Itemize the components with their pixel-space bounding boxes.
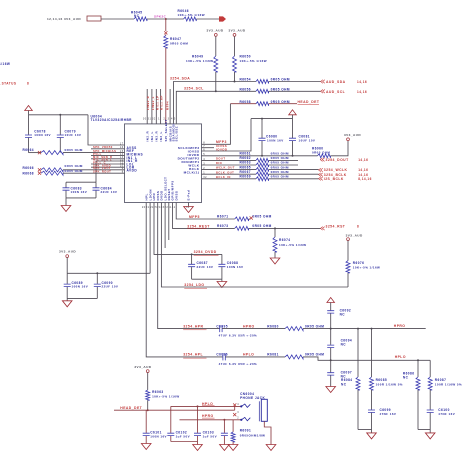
svg-text:5: 5: [174, 118, 176, 121]
svg-text:HPRO: HPRO: [243, 324, 255, 328]
svg-text:100R 1/16W 5%: 100R 1/16W 5%: [376, 382, 403, 386]
svg-text:0R05 OHM: 0R05 OHM: [271, 152, 289, 156]
capacitor C6083 100N 16V: [65, 182, 67, 187]
wire R6050 to 3254_SDA line: [234, 72, 236, 82]
wire LDOIN caps bottom rail: [67, 297, 97, 299]
wire R6065 to net label: [269, 169, 319, 171]
capacitor C6094 NC between HPRO and HPLO: [330, 329, 332, 345]
svg-text:0R05 OHM: 0R05 OHM: [312, 150, 330, 154]
svg-text:47NF 16V: 47NF 16V: [380, 412, 397, 416]
resistor R6087 100R: [429, 360, 431, 377]
net label 3254_RST: [321, 227, 325, 231]
wire 3254_HPR row: [158, 203, 220, 329]
svg-text:NC: NC: [341, 382, 347, 386]
wire 3254_SCL from codec pin up and right: [176, 91, 256, 124]
svg-text:R6056: R6056: [240, 87, 252, 91]
net label AUD_SDA: [321, 80, 325, 84]
svg-text:10K+-5% 1/16W: 10K+-5% 1/16W: [178, 13, 205, 17]
svg-text:3V3_AUD: 3V3_AUD: [134, 365, 151, 369]
svg-text:31: 31: [148, 118, 152, 121]
svg-text:R6049: R6049: [192, 55, 204, 59]
wire codec serial row BCLK_OUT: [202, 173, 257, 175]
wire LDOIN rail: [66, 258, 68, 274]
svg-text:14,16: 14,16: [358, 158, 368, 162]
svg-text:WCLK_OUT: WCLK_OUT: [216, 166, 235, 170]
svg-text:3V3_AUD: 3V3_AUD: [346, 234, 363, 238]
resistor R6074 10K pull-down: [274, 227, 276, 229]
svg-text:R6054: R6054: [240, 78, 252, 82]
svg-text:10UF 10V: 10UF 10V: [299, 138, 316, 142]
capacitor C6099 47NF 16V: [371, 390, 373, 410]
svg-text:3V3_AUD: 3V3_AUD: [59, 249, 76, 253]
svg-text:3254_SCL: 3254_SCL: [184, 87, 204, 91]
svg-text:22UF 10V: 22UF 10V: [101, 190, 118, 194]
wire R6058 to HEAD_DET label: [269, 103, 297, 105]
capacitor C6104 on HPRO: [223, 419, 225, 421]
svg-text:R6076: R6076: [353, 261, 365, 265]
svg-text:AUD_SCL: AUD_SCL: [326, 90, 345, 94]
wire SPK2C node to R6046: [166, 18, 184, 20]
capacitor C6101 100N 16V: [145, 410, 147, 433]
svg-text:R6061: R6061: [240, 152, 252, 156]
capacitor C6080 100N 16V: [261, 118, 263, 120]
wire R6062 to net label: [269, 159, 298, 161]
net label IOVSS stub: [202, 147, 215, 149]
net label 3254_DOUT: [320, 158, 324, 162]
svg-text:3254_LDO: 3254_LDO: [184, 283, 204, 287]
svg-text:12,14,16: 12,14,16: [47, 17, 63, 21]
svg-text:R6073: R6073: [217, 224, 229, 228]
wire HEAD_DET row to jack: [114, 409, 235, 411]
svg-text:0R05 OHM: 0R05 OHM: [271, 170, 289, 174]
wire codec top pin stubs: [146, 89, 148, 124]
svg-text:22UF 10V: 22UF 10V: [102, 285, 119, 289]
svg-text:0R05 OHM: 0R05 OHM: [271, 78, 290, 82]
svg-text:100R 1/16W 5%: 100R 1/16W 5%: [435, 382, 462, 386]
wire codec serial row DIN: [202, 164, 257, 166]
capacitor C6088 100N 16V: [221, 254, 223, 264]
resistor R6076 10K pull-up: [347, 241, 349, 261]
svg-text:R6066: R6066: [23, 166, 35, 170]
svg-text:32: 32: [152, 118, 156, 121]
svg-text:3254_DOUT: 3254_DOUT: [326, 158, 350, 162]
no-stuff X mark on R6071: [249, 218, 251, 220]
svg-text:DIN: DIN: [216, 161, 222, 165]
wire SPK2C node down to R6047: [165, 19, 167, 31]
svg-text:HPLO: HPLO: [202, 402, 213, 406]
svg-text:3254_RST: 3254_RST: [326, 225, 346, 229]
svg-text:4: 4: [171, 118, 173, 121]
off-page connector arrow right: [219, 16, 226, 21]
svg-text:MFP5: MFP5: [189, 215, 200, 219]
svg-text:R6062: R6062: [240, 156, 252, 160]
wire LDOIN pin drop: [149, 203, 151, 274]
svg-text:R6074: R6074: [279, 238, 291, 242]
svg-text:R6047: R6047: [170, 37, 182, 41]
wire R6046 to off-page arrow: [196, 18, 219, 20]
wire MFP3 riser down to codec pin: [202, 104, 231, 145]
svg-text:BCLK_OUT: BCLK_OUT: [216, 170, 234, 174]
svg-text:SCL/SSZ: SCL/SSZ: [175, 126, 179, 142]
svg-text:SPK_ROUT: SPK_ROUT: [93, 170, 111, 174]
svg-text:HPRO: HPRO: [394, 324, 406, 328]
svg-text:R6058: R6058: [240, 100, 252, 104]
svg-text:100N 16V: 100N 16V: [71, 190, 88, 194]
svg-text:8: 8: [27, 81, 29, 85]
svg-text:0R05 OHM: 0R05 OHM: [271, 87, 290, 91]
wire R6067 to net label: [269, 173, 319, 175]
svg-text:47UF 6.3V X5R +-20%: 47UF 6.3V X5R +-20%: [219, 362, 258, 366]
wire HPLO to HEAD_DET link at jack: [234, 406, 236, 410]
svg-text:10K+-5% 1/16W: 10K+-5% 1/16W: [353, 266, 380, 270]
svg-text:LINE2_L: LINE2_L: [151, 96, 155, 110]
svg-text:DOUT: DOUT: [216, 157, 225, 161]
resistor R6085 100R: [371, 328, 373, 330]
svg-text:100N 16V: 100N 16V: [150, 434, 167, 438]
ground for LDOIN caps: [66, 298, 68, 300]
svg-text:IN2_R: IN2_R: [145, 130, 149, 141]
svg-text:E-Pad: E-Pad: [187, 190, 191, 201]
svg-text:0R05 OHM: 0R05 OHM: [170, 41, 188, 45]
wire R6073 to 3254_RST label: [249, 227, 321, 229]
svg-text:IN2_L: IN2_L: [150, 131, 154, 141]
ground codec E-Pad: [188, 203, 190, 207]
wire caps bottom rail: [66, 197, 96, 199]
wire MFP5 row: [176, 203, 235, 220]
svg-text:MCLK(1): MCLK(1): [184, 170, 200, 174]
svg-text:0R05 OHM: 0R05 OHM: [252, 214, 271, 218]
svg-text:R6091: R6091: [240, 429, 252, 433]
wire codec spare bottom stubs: [164, 203, 166, 249]
svg-text:4: 4: [237, 403, 239, 406]
wire 3V3_AUD feed to R6045: [101, 18, 134, 20]
ground for output caps: [65, 198, 67, 206]
svg-text:10UF 10V: 10UF 10V: [65, 133, 82, 137]
op-amp/codec U6004 TLV320AIC3254IRHBR body: [125, 124, 202, 203]
wire R6049 to 3254_SCL line: [215, 72, 217, 91]
net label 3254_BCLK: [319, 173, 323, 177]
svg-text:SPK_VDD50: SPK_VDD50: [93, 145, 113, 149]
wire LOL row to output caps: [96, 161, 125, 182]
svg-text:0R05 OHM: 0R05 OHM: [65, 148, 83, 152]
svg-text:47UF 6.3V X5R +-20%: 47UF 6.3V X5R +-20%: [219, 334, 258, 338]
capacitor C6103 1uF 50V: [197, 405, 199, 407]
svg-text:HPLO: HPLO: [395, 355, 406, 359]
svg-text:TLV320AIC3254IRHBR: TLV320AIC3254IRHBR: [91, 118, 133, 122]
svg-text:R6080: R6080: [267, 324, 279, 328]
svg-text:SPK2C: SPK2C: [154, 14, 167, 18]
svg-text:3254_HPL: 3254_HPL: [183, 353, 203, 357]
wire 3254_LDO row: [161, 203, 348, 288]
svg-text:0R05 OHM: 0R05 OHM: [271, 100, 290, 104]
capacitor C6087 22UF 10V: [191, 253, 193, 255]
svg-text:10K+-5% 1/16W: 10K+-5% 1/16W: [186, 59, 213, 63]
wire 3254_HPL row: [146, 203, 223, 357]
power arrow 3V3_AUD analog supply: [25, 106, 33, 111]
svg-text:T_STATUS: T_STATUS: [0, 81, 16, 85]
power flag 3V3_AUD for C6092: [327, 298, 335, 303]
svg-text:HPLO: HPLO: [243, 353, 254, 357]
wire C6095 to R6080: [222, 328, 285, 330]
wire R6066 to codec pin: [63, 169, 125, 171]
svg-text:0R05OHM1/8W: 0R05OHM1/8W: [240, 434, 266, 438]
svg-text:I2S_BCLK: I2S_BCLK: [324, 177, 344, 181]
svg-text:DVSS: DVSS: [174, 191, 178, 201]
wire R6069 to net label: [269, 178, 319, 180]
capacitor C6092 NC: [330, 303, 332, 311]
svg-text:10K+-5% 1/16W: 10K+-5% 1/16W: [240, 59, 267, 63]
wire C6102/C6103 ground rail: [171, 441, 198, 443]
svg-text:R6071: R6071: [217, 214, 229, 218]
wire R6068 to codec pin: [63, 172, 125, 174]
svg-text:100N 16V: 100N 16V: [267, 138, 284, 142]
svg-text:3: 3: [237, 411, 239, 414]
svg-text:3254_REST: 3254_REST: [187, 224, 210, 228]
svg-text:R6046: R6046: [178, 9, 190, 13]
net label I2S_BCLK: [319, 177, 323, 181]
svg-text:3254_DVDD: 3254_DVDD: [194, 250, 217, 254]
svg-text:3V3_AUD: 3V3_AUD: [64, 17, 81, 21]
wire rail down to AVSS/17 pin row: [88, 115, 125, 145]
svg-text:0R05 OHM: 0R05 OHM: [271, 161, 289, 165]
svg-text:HPRO: HPRO: [202, 414, 214, 418]
wire io supply rail: [251, 118, 293, 120]
capacitor C6090 22UF 10V: [96, 272, 98, 274]
ground for C6100: [429, 430, 431, 433]
wire HPLO row to right with jog: [303, 357, 430, 360]
wire R6084/C6099 bottom rail: [358, 429, 372, 431]
svg-text:14,16: 14,16: [357, 80, 367, 84]
wire R6045 to SPK2C node: [147, 18, 166, 20]
svg-text:3V3_AUD: 3V3_AUD: [344, 133, 361, 137]
wire HPLO jack row: [171, 405, 241, 407]
svg-text:NC: NC: [341, 342, 347, 346]
wire C6096 to R6081: [225, 356, 285, 358]
resistor R6091 0R05OHM1/8W: [232, 420, 234, 432]
svg-text:2: 2: [237, 417, 239, 420]
wire HPRO jack row: [180, 419, 241, 421]
no-stuff X mark on R6047: [164, 31, 167, 34]
wire 3V3_AUD flag to R6049: [215, 36, 217, 56]
svg-text:8,14,16: 8,14,16: [358, 177, 372, 181]
svg-text:SPK_LOUT: SPK_LOUT: [93, 166, 111, 170]
svg-text:3V3_AUD: 3V3_AUD: [207, 29, 224, 33]
svg-text:NC: NC: [403, 376, 409, 380]
svg-text:HEAD_DET: HEAD_DET: [298, 100, 320, 104]
svg-text:BCLK_IN: BCLK_IN: [216, 175, 231, 179]
wire R6063 to net label: [269, 164, 298, 166]
capacitor C6084 22UF 10V: [95, 182, 97, 187]
wire R6056 to AUD_SCL label: [269, 90, 321, 92]
net label 3254_WCLK: [319, 168, 323, 172]
svg-text:8: 8: [357, 225, 359, 229]
svg-text:14,16: 14,16: [357, 90, 367, 94]
svg-text:PVLL: PVLL: [93, 152, 102, 156]
svg-text:1: 1: [158, 118, 160, 121]
ground for jack sleeve: [266, 445, 276, 451]
capacitor C6078 100N 16V: [28, 115, 30, 135]
wire jack sleeve to ground: [264, 421, 271, 444]
capacitor C6097 NC below HPLO: [330, 360, 332, 372]
svg-text:R6050: R6050: [240, 55, 252, 59]
svg-text:100N 16V: 100N 16V: [34, 133, 51, 137]
wire 3254_REST row: [173, 203, 235, 229]
capacitor C6081 10UF 10V: [292, 119, 294, 138]
svg-text:IOVDD: IOVDD: [216, 147, 227, 151]
svg-text:100N 16V: 100N 16V: [72, 285, 89, 289]
wire codec serial row BCLK_IN: [202, 178, 257, 180]
svg-text:100N 16V: 100N 16V: [227, 265, 244, 269]
ground for DVDD caps: [221, 279, 223, 281]
net label AUD_SCL: [321, 90, 325, 94]
resistor R6086 NC: [417, 359, 419, 361]
svg-text:10K+-5% 1/16W: 10K+-5% 1/16W: [279, 243, 306, 247]
svg-text:R6067: R6067: [240, 170, 252, 174]
svg-text:IN3_L: IN3_L: [159, 131, 163, 141]
wire R6086/C6100 bottom rail: [418, 429, 430, 431]
svg-text:MFP4: MFP4: [165, 101, 169, 110]
svg-text:MIC1_RP: MIC1_RP: [160, 95, 164, 110]
svg-text:MIC1_LP: MIC1_LP: [155, 96, 159, 111]
wire 3254_SDA from codec pin up and right: [174, 82, 257, 124]
svg-text:3254_SDA: 3254_SDA: [170, 77, 190, 81]
power arrow 3V3_AUD io supply: [289, 110, 297, 115]
wire HPRO row to right: [303, 328, 426, 330]
svg-text:C6096: C6096: [216, 353, 228, 357]
svg-text:NC: NC: [340, 313, 346, 317]
svg-text:3254_WCLK: 3254_WCLK: [324, 168, 348, 172]
svg-text:0R05 OHM: 0R05 OHM: [252, 224, 271, 228]
wire output cap rail: [66, 181, 96, 183]
capacitor C6089 100N 16V: [66, 273, 68, 284]
svg-text:R6064: R6064: [23, 148, 35, 152]
wire R6054 to AUD_SDA label: [269, 81, 321, 83]
wire 3254_DVDD row: [154, 203, 222, 255]
ground for R6074: [270, 258, 280, 264]
capacitor C6102 1uF 50V: [170, 406, 172, 433]
ferrite/resistor box on 3V3_AUD feed: [87, 16, 101, 21]
ground for C6097: [326, 387, 336, 393]
svg-text:AVDD: AVDD: [127, 169, 138, 173]
wire IOVDD to supply rail: [202, 119, 252, 151]
svg-text:R6063: R6063: [240, 161, 252, 165]
resistor R6084 NC: [357, 328, 359, 330]
svg-text:R6069: R6069: [240, 175, 252, 179]
svg-text:0R05 OHM: 0R05 OHM: [271, 175, 289, 179]
wire codec serial row WCLK_OUT: [202, 169, 257, 171]
ground for R6091: [228, 445, 238, 451]
svg-text:HEAD_DET: HEAD_DET: [120, 406, 142, 410]
wire codec left pin stubs: [91, 148, 125, 150]
wire HEAD_DET row from MFP3 riser: [230, 103, 256, 105]
wire DVDD caps bottom rail: [192, 278, 222, 280]
svg-text:R6081: R6081: [267, 353, 279, 357]
capacitor C6079 10UF 10V: [59, 114, 61, 116]
svg-text:R6065: R6065: [240, 165, 252, 169]
svg-text:0R05 OHM: 0R05 OHM: [271, 156, 289, 160]
resistor R6063 10K pull-up: [147, 373, 149, 390]
wire R6060 to 3V3_AUD flag: [331, 141, 349, 156]
wire R6047 down to codec top pin: [165, 48, 167, 124]
ground for C6102/C6103: [197, 442, 199, 445]
svg-text:1/16W: 1/16W: [0, 62, 10, 66]
svg-text:10K+-5% 1/16W: 10K+-5% 1/16W: [152, 394, 179, 398]
wire cap rail to R6064 row: [29, 152, 42, 154]
ground for C6099: [371, 430, 373, 433]
svg-text:0R05 OHM: 0R05 OHM: [305, 324, 324, 328]
svg-text:R6068: R6068: [23, 172, 35, 176]
svg-text:1uF 50V: 1uF 50V: [203, 434, 217, 438]
svg-text:3V3_AUD: 3V3_AUD: [229, 29, 246, 33]
ground for C6101: [141, 444, 151, 450]
svg-text:14,16: 14,16: [358, 168, 368, 172]
svg-text:0R05 OHM: 0R05 OHM: [305, 353, 324, 357]
svg-text:0R05 OHM: 0R05 OHM: [65, 164, 83, 168]
ground for C6104: [220, 445, 230, 451]
svg-text:R6063: R6063: [152, 390, 164, 394]
svg-text:1uF 50V: 1uF 50V: [176, 434, 190, 438]
wire 3V3_AUD flag to R6050: [234, 36, 236, 56]
no-stuff X marks at jack pins: [233, 403, 236, 406]
wire R6064 to MICBIAS pin: [63, 152, 125, 154]
svg-text:0R05 OHM: 0R05 OHM: [65, 169, 83, 173]
svg-text:3254_HPR: 3254_HPR: [183, 324, 203, 328]
svg-text:LINE2_R: LINE2_R: [146, 96, 150, 110]
wire codec serial row DOUT: [202, 159, 257, 161]
svg-text:0R05 OHM: 0R05 OHM: [271, 165, 289, 169]
wire analog supply rail: [29, 114, 89, 116]
svg-text:22UF 10V: 22UF 10V: [197, 265, 214, 269]
svg-text:AUD_SDA: AUD_SDA: [326, 80, 346, 84]
svg-text:30: 30: [143, 118, 147, 121]
wire DOUT/MFP2 supply row: [202, 155, 318, 157]
svg-text:47NF 16V: 47NF 16V: [438, 412, 455, 416]
capacitor C6100 47NF 16V: [429, 390, 431, 410]
